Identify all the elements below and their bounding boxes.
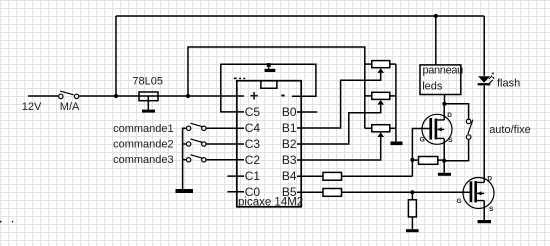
wire Q1 source to ground [443,138,445,173]
switch commande1 [186,123,206,130]
svg-text:C4: C4 [245,121,261,135]
wire pot3 right stub [390,127,396,129]
ground Q2 source [478,220,491,223]
svg-text:B4: B4 [282,169,297,183]
wire B4 to gate riser [297,160,412,176]
svg-text:C5: C5 [245,105,261,119]
IC notch [261,81,277,89]
stray mark dot [12,221,13,222]
svg-text:auto/fixe: auto/fixe [489,124,531,136]
IC U1 picaxe 14M2 body [237,81,301,207]
svg-text:D: D [487,175,492,182]
svg-text:C1: C1 [245,169,261,183]
wire C1 stub [227,175,244,177]
node B5 [410,190,414,194]
potentiometer P3 [372,125,390,137]
node junction dots [114,14,447,195]
wire Q2 source to ground [483,201,485,221]
resistor R2 on B5 [323,189,342,197]
wire pot1 wiper to B1 [297,73,381,128]
ground Q1 source [438,173,451,176]
wire 78L05 ground stem [147,96,149,110]
svg-text:C3: C3 [245,137,261,151]
svg-text:commande2: commande2 [113,138,174,150]
svg-text:B5: B5 [282,185,297,199]
wire auto/fixe switch bottom to source [444,140,468,161]
wire B5 pulldown riser [411,192,413,229]
panneau leds box [420,65,461,95]
transistor Q1 MOSFET [422,114,452,144]
wire 5V riser to pot bus [188,47,365,128]
wire C4 to switch [206,127,244,129]
node panneau top [434,14,438,18]
resistor R1 on B4 [323,172,342,180]
potentiometer P2 [372,92,390,104]
switch commande2 [186,139,206,146]
wire C0 stub [227,191,244,193]
stray mark left [0,221,1,223]
svg-text:C2: C2 [245,153,261,167]
wire pot1 right stub [390,63,396,65]
svg-text:S: S [448,137,453,144]
wire pot2 wiper to B2 [297,104,381,144]
resistor R4 pulldown [408,200,416,217]
wire commande ground bus [183,128,186,189]
svg-text:+: + [250,88,259,105]
wire pot3 wiper to B3 [297,137,381,160]
svg-text:leds: leds [422,81,443,93]
wire panneau bottom to drain node [444,95,446,104]
svg-text:D: D [447,112,452,119]
wire 12V input [28,95,58,97]
svg-text:B0: B0 [282,105,297,119]
wire panneau top drop [435,16,437,65]
svg-text:C0: C0 [245,185,261,199]
switch M/A [59,91,79,99]
LED flash [478,72,495,85]
regulator U2 78L05 [139,92,158,101]
svg-text:B3: B3 [282,153,297,167]
transistor Q2 MOSFET [463,178,494,209]
wire drain node to auto/fixe switch [444,104,468,119]
ground 78L05 [142,110,155,113]
wire pot1 left stub [365,63,372,65]
svg-text:commande3: commande3 [113,154,174,166]
wire top 12V rail [116,15,484,17]
wire pot2 left stub [365,95,372,97]
wire C3 to switch [206,143,244,145]
wire pots right bus to ground [395,64,397,142]
wire B5 to Q2 gate [297,191,470,193]
switch auto/fixe [466,119,473,139]
ground pots [391,142,403,146]
potentiometer P1 [372,61,390,73]
svg-text:commande1: commande1 [113,123,174,135]
resistor R3 gate-source [419,157,438,165]
wire LED cathode to Q2 drain [483,86,485,183]
node gate1 [410,158,414,162]
wire B0 stub [297,111,317,113]
wire C5 to 0V loop and minus pin [221,64,316,112]
wire LED anode [483,16,485,76]
wire 12V to regulator and +5V pin [79,95,244,97]
wire pot2 right stub [390,95,396,97]
svg-text:M/A: M/A [60,101,80,113]
svg-text:flash: flash [497,78,520,90]
node drain [442,102,446,106]
node 5V riser [186,94,190,98]
dash-dot marks [234,78,245,80]
svg-text:S: S [489,206,494,213]
wire Q1 drain [443,104,445,120]
wire gate pulldown resistor stubs [412,159,444,161]
svg-text:G: G [420,136,425,143]
svg-text:B1: B1 [282,121,297,135]
ground commande [176,189,194,193]
wire pot3 left stub [365,127,372,129]
node 12V riser [114,94,118,98]
node source1 [442,159,446,163]
wire C2 to switch [206,159,244,161]
svg-text:panneau: panneau [423,65,464,77]
wire Q1 gate [412,129,429,160]
svg-text:12V: 12V [22,101,42,113]
svg-text:B2: B2 [282,137,297,151]
svg-text:78L05: 78L05 [132,76,163,88]
wire riser to top rail [115,16,117,96]
label minus pin [281,95,284,97]
decoupling cap on 0V loop [265,63,276,72]
svg-text:G: G [457,198,462,205]
ground R4 [406,229,419,232]
switch commande3 [186,155,206,162]
